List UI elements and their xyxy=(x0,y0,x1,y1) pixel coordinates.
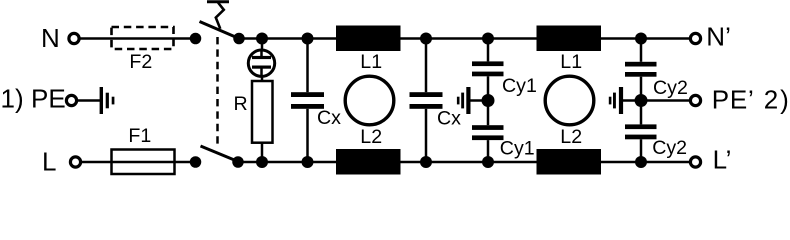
svg-text:N: N xyxy=(41,23,60,53)
capacitor Cy2 (lower) xyxy=(625,101,657,163)
label 1) xyxy=(1,84,24,114)
ground (Cy2 midpoint, pointing left) xyxy=(609,87,641,114)
junction: Cx1 bottom xyxy=(302,156,314,168)
terminal L' xyxy=(690,157,700,167)
label F1 xyxy=(128,125,151,147)
svg-text:Cy2: Cy2 xyxy=(652,137,687,159)
terminal PE xyxy=(66,95,76,105)
wire: terminal PE to ground symbol xyxy=(78,99,101,102)
inductor L1 (first choke, N winding) xyxy=(336,26,401,52)
ground (PE, chassis earth, pointing right) xyxy=(100,87,115,114)
switch S1 pole 2 (L line) xyxy=(190,146,244,168)
junction: Cy1 bottom xyxy=(482,156,494,168)
label L1 (first choke) xyxy=(360,51,382,73)
wire: Cy2 midpoint to terminal PE' xyxy=(641,99,690,102)
junction: Cx2 top xyxy=(420,33,432,45)
switch actuator bar xyxy=(207,0,229,3)
choke core (second) xyxy=(545,76,594,125)
label L2 (second choke) xyxy=(560,126,582,148)
svg-text:L: L xyxy=(42,147,56,177)
svg-text:L1: L1 xyxy=(560,51,582,73)
label L1 (second choke) xyxy=(560,51,582,73)
junction: neon branch top xyxy=(256,33,268,45)
svg-text:F1: F1 xyxy=(128,125,151,147)
svg-text:L2: L2 xyxy=(560,126,582,148)
inductor L2 (second choke, L winding) xyxy=(537,149,602,175)
svg-text:Cy2: Cy2 xyxy=(653,77,688,99)
svg-text:F2: F2 xyxy=(129,51,152,73)
label Cy1 (lower) xyxy=(500,138,535,160)
terminal PE' xyxy=(690,95,700,105)
capacitor Cy1 (lower) xyxy=(472,101,504,163)
svg-text:L’: L’ xyxy=(713,145,732,175)
capacitor Cy2 (upper) xyxy=(625,39,657,101)
wire L-line: terminal L through F1 to switch xyxy=(82,161,196,164)
svg-text:Cx: Cx xyxy=(437,108,461,130)
ground (Cy1 midpoint, pointing left) xyxy=(457,87,488,114)
svg-text:L1: L1 xyxy=(360,51,382,73)
terminal N xyxy=(69,33,79,43)
switch actuator spring xyxy=(216,3,224,29)
svg-text:Cx: Cx xyxy=(317,107,341,129)
svg-text:R: R xyxy=(234,93,248,115)
label N' xyxy=(706,22,731,52)
capacitor Cx1 xyxy=(291,39,324,163)
node: Cy1 midpoint xyxy=(482,94,495,107)
junction: resistor branch bottom xyxy=(256,156,268,168)
junction: Cx1 top xyxy=(302,33,314,45)
label Cy1 (upper) xyxy=(502,75,537,97)
terminal L xyxy=(70,157,80,167)
label R xyxy=(234,93,248,115)
wire L-line: second choke to terminal L' xyxy=(601,161,690,164)
label F2 xyxy=(129,51,152,73)
label L' xyxy=(713,145,732,175)
wire N-line: choke to second choke xyxy=(401,37,538,40)
junction: Cy1 top xyxy=(482,33,494,45)
svg-text:Cy1: Cy1 xyxy=(502,75,537,97)
resistor R xyxy=(252,81,273,162)
label PE xyxy=(31,84,66,114)
inductor L1 (second choke, N winding) xyxy=(537,26,602,52)
capacitor Cx2 xyxy=(410,39,443,163)
junction: Cy2 bottom xyxy=(635,156,647,168)
label L2 (first choke) xyxy=(360,126,382,148)
terminal N' xyxy=(690,33,700,43)
node: Cy2 midpoint xyxy=(635,94,648,107)
capacitor Cy1 (upper) xyxy=(472,39,504,101)
switch S1 pole 1 (N line) xyxy=(190,22,245,45)
choke core (first) xyxy=(345,76,394,125)
switch mechanical linkage (dashed) xyxy=(216,37,219,144)
label Cx (first) xyxy=(317,107,341,129)
inductor L2 (first choke, L winding) xyxy=(336,149,401,175)
svg-text:Cy1: Cy1 xyxy=(500,138,535,160)
wire N-line: terminal N through F2 to switch xyxy=(81,37,196,40)
svg-text:N’: N’ xyxy=(706,22,731,52)
label L xyxy=(42,147,56,177)
fuse F1 xyxy=(112,150,175,175)
label Cx (second) xyxy=(437,108,461,130)
wire L-line: switch to choke L2 xyxy=(238,161,337,164)
label Cy2 (lower) xyxy=(652,137,687,159)
wire N-line: second choke to terminal N' xyxy=(601,37,690,40)
svg-text:1): 1) xyxy=(1,84,24,114)
svg-text:L2: L2 xyxy=(360,126,382,148)
svg-text:PE’: PE’ xyxy=(712,85,754,115)
junction: Cy2 top xyxy=(635,33,647,45)
label Cy2 (upper) xyxy=(653,77,688,99)
label PE' xyxy=(712,85,754,115)
wire N-line: switch to choke L1 xyxy=(239,37,337,40)
junction: Cx2 bottom xyxy=(420,156,432,168)
wire L-line: choke to second choke xyxy=(401,161,538,164)
label N xyxy=(41,23,60,53)
label 2) xyxy=(764,85,789,115)
neon lamp xyxy=(248,39,274,83)
svg-text:PE: PE xyxy=(31,84,66,114)
svg-text:2): 2) xyxy=(764,85,789,115)
fuse F2 (dashed box) xyxy=(112,27,174,49)
